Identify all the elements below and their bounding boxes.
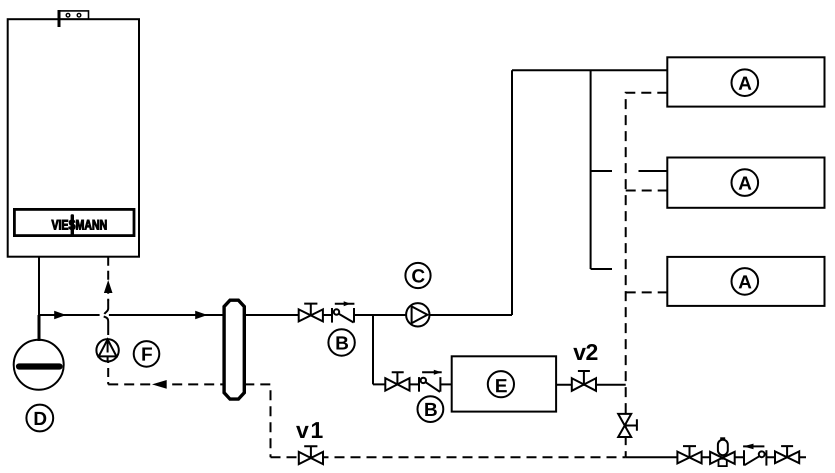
wire supply horizontal left: [39, 314, 100, 316]
logo text VIESMANN: [52, 220, 107, 230]
wire thick stub to vessel D: [38, 315, 41, 341]
wire boiler return dashed lower: [107, 326, 109, 384]
flue connection box: [58, 11, 88, 19]
wire return dashed from header left: [108, 383, 224, 385]
shutoff valve (supply) B: [299, 309, 323, 321]
check valve (branch) B: [419, 370, 442, 392]
wire riser up: [511, 70, 513, 315]
flue circle 1: [66, 13, 70, 17]
wire bottom solid right: [766, 456, 806, 458]
wire return dashed header right: [244, 384, 270, 457]
vessel D membrane bar: [19, 363, 60, 369]
wire top manifold: [512, 69, 667, 71]
label B (branch): [418, 396, 444, 422]
shutoff valve bottom 2: [775, 451, 799, 463]
low-loss header: [224, 300, 244, 399]
node T-junction down: [372, 315, 374, 384]
wire supply stub circuit3: [591, 268, 612, 270]
wire return stub circuit2: [626, 190, 668, 192]
wire bottom dashed: [271, 456, 626, 458]
wire supply check valve to riser: [354, 314, 512, 316]
fill valve assembly: [710, 438, 735, 466]
pump F: [96, 339, 118, 361]
shutoff valve (branch) stem: [392, 372, 404, 384]
flow arrow right 1: [54, 311, 66, 319]
DHW tank E: [452, 356, 556, 411]
wire boiler return dashed upper: [107, 257, 109, 301]
wire supply header to check valve: [244, 314, 332, 316]
flow arrow left: [152, 380, 167, 389]
label v2: [573, 344, 597, 360]
label C: [405, 263, 430, 288]
flue thick bar: [58, 10, 61, 27]
flue circle 2: [77, 13, 81, 17]
valve v1 stem: [304, 446, 317, 458]
wire supply stub circuit2 b: [639, 170, 668, 172]
expansion vessel D: [14, 340, 64, 390]
wire bottom solid left: [626, 456, 744, 458]
label D: [26, 405, 53, 432]
shutoff valve bottom 1 stem: [683, 446, 696, 457]
heating circuit A3: [667, 257, 824, 306]
wire manifold vertical 2: [590, 70, 592, 269]
label v1: [296, 422, 323, 438]
heating circuit A1: [667, 57, 824, 106]
valve v2: [572, 378, 596, 391]
shutoff valve (supply) stem: [304, 304, 317, 316]
shutoff valve (branch) B: [385, 378, 409, 390]
drain valve vertical: [618, 414, 631, 437]
wire return dashed from circuit1: [626, 93, 668, 458]
check valve (supply) B: [332, 301, 354, 322]
logo plate: [14, 209, 134, 235]
check valve bottom (mirrored): [743, 444, 766, 466]
valve v1: [299, 452, 323, 464]
wire lower branch: [373, 383, 419, 385]
wire return stub circuit3: [626, 291, 668, 293]
boiler: [8, 19, 139, 257]
wire boiler supply down: [38, 257, 40, 315]
valve v2 stem: [578, 371, 590, 385]
wire supply horizontal to header: [109, 314, 224, 316]
label B (supply): [328, 329, 354, 355]
heating circuit A2: [667, 158, 824, 208]
flow arrow right 2: [195, 311, 207, 319]
pipe crossing break: [104, 301, 109, 327]
drain valve stem: [625, 419, 637, 431]
shutoff valve bottom 2 stem: [781, 446, 793, 457]
flow arrow up: [104, 280, 113, 293]
wire E to return vertical: [556, 384, 626, 386]
label F: [134, 341, 160, 367]
shutoff valve bottom 1: [677, 452, 701, 464]
wire supply stub circuit2 a: [591, 170, 612, 172]
pump C: [406, 303, 429, 326]
